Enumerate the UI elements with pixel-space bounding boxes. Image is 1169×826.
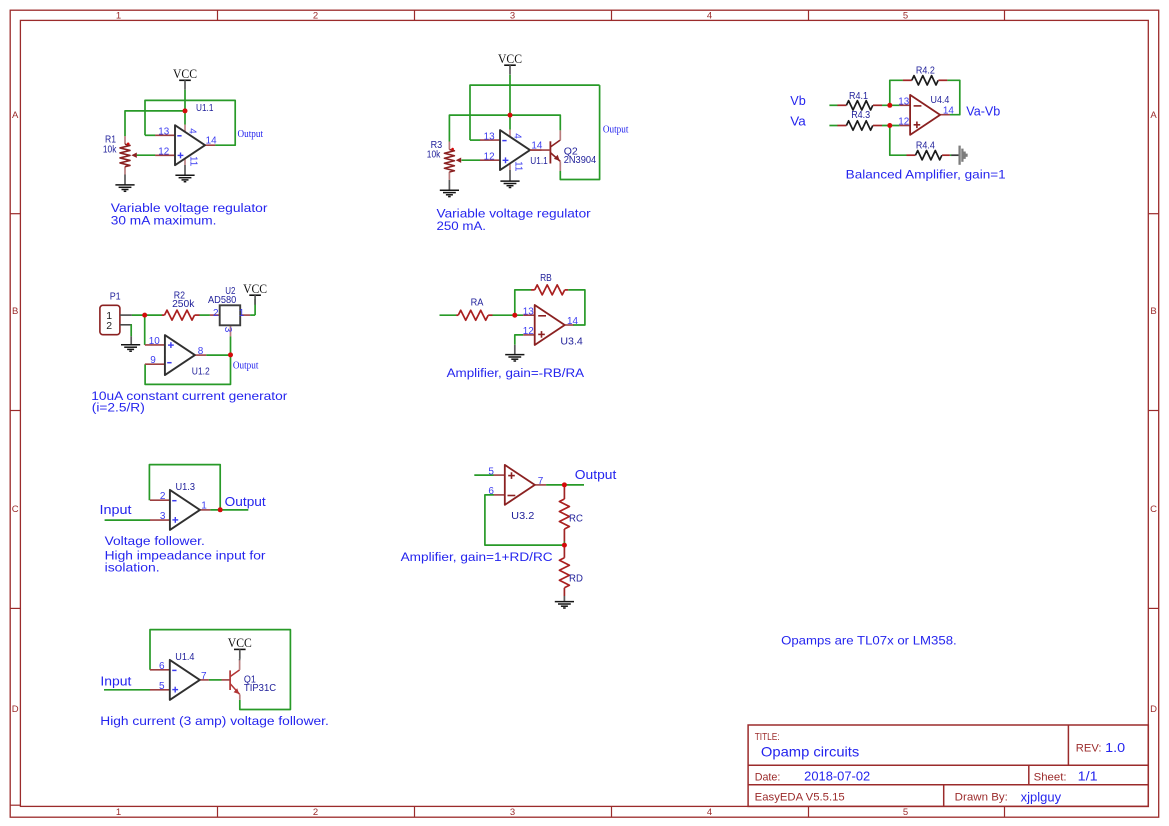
label U1.3 — [176, 481, 196, 493]
potentiometer R1 — [120, 136, 137, 174]
node Output — [228, 352, 233, 357]
note opamps — [781, 634, 957, 648]
wire — [250, 314, 255, 316]
net label Output — [225, 494, 266, 509]
svg-text:RA: RA — [471, 296, 484, 308]
svg-text:14: 14 — [206, 136, 217, 147]
resistor R4.2 — [903, 76, 948, 85]
pin 11 label — [188, 156, 199, 167]
svg-text:(i=2.5/R): (i=2.5/R) — [92, 400, 145, 414]
value AD580 — [208, 294, 236, 306]
svg-text:2: 2 — [313, 10, 318, 21]
pin 3 label — [222, 327, 233, 333]
wire — [474, 474, 493, 476]
caption amplifier gain=1+RD/RC — [401, 550, 553, 564]
svg-text:EasyEDA V5.5.15: EasyEDA V5.5.15 — [755, 792, 845, 804]
ground — [440, 190, 459, 196]
op-amp U1.1 — [155, 125, 215, 166]
svg-text:U3.2: U3.2 — [511, 510, 534, 522]
svg-text:5: 5 — [903, 10, 908, 21]
wire — [239, 659, 241, 660]
svg-text:30 mA maximum.: 30 mA maximum. — [111, 214, 217, 228]
svg-text:1: 1 — [239, 308, 245, 319]
label U1.1 — [196, 102, 214, 114]
wire — [150, 630, 290, 710]
pin 12 label — [523, 326, 534, 337]
resistor RA — [456, 310, 492, 320]
svg-text:2N3904: 2N3904 — [564, 154, 597, 166]
potentiometer R3 — [444, 142, 461, 180]
wire — [449, 115, 560, 141]
label RC — [569, 512, 583, 524]
net label Output — [575, 467, 617, 482]
power VCC — [243, 282, 267, 305]
wire — [440, 314, 457, 316]
wire — [470, 85, 600, 140]
wire — [568, 290, 585, 325]
value 10k R3 — [427, 149, 441, 161]
wire — [105, 519, 151, 521]
svg-text:R4.3: R4.3 — [851, 109, 870, 121]
svg-text:12: 12 — [898, 117, 909, 128]
pin 12 label — [484, 152, 495, 163]
title block — [748, 725, 1148, 806]
svg-text:1.0: 1.0 — [1105, 741, 1125, 755]
net label Output — [233, 359, 259, 371]
pin 14 label — [567, 316, 578, 327]
ground — [960, 146, 967, 165]
svg-text:D: D — [1150, 704, 1157, 715]
svg-text:Output: Output — [225, 494, 266, 509]
wire — [145, 355, 230, 385]
svg-text:TITLE:: TITLE: — [755, 732, 780, 743]
net label Output — [238, 128, 264, 140]
op-amp U1.1 (unit 2) — [480, 130, 542, 171]
svg-text:1: 1 — [201, 501, 207, 512]
wire — [145, 100, 235, 145]
wire — [882, 125, 899, 127]
wire — [882, 104, 899, 106]
wire — [461, 159, 480, 161]
label R3 — [431, 139, 443, 151]
svg-text:C: C — [1150, 504, 1157, 515]
svg-text:VCC: VCC — [498, 52, 522, 66]
wire — [515, 290, 531, 315]
wire — [947, 80, 959, 114]
ground — [115, 185, 134, 191]
svg-text:12: 12 — [158, 147, 169, 158]
pin 12 label — [898, 117, 909, 128]
svg-text:13: 13 — [523, 306, 534, 317]
op-amp U1.4 — [150, 660, 209, 700]
svg-text:Output: Output — [238, 128, 264, 140]
wire — [509, 75, 511, 130]
svg-text:4: 4 — [186, 128, 197, 134]
power VCC — [173, 67, 197, 90]
wire — [206, 354, 230, 356]
ground stem R3 — [448, 180, 450, 190]
label R4.4 — [916, 140, 935, 152]
pin 14 label — [943, 106, 954, 117]
svg-text:C: C — [12, 504, 19, 515]
svg-text:13: 13 — [158, 127, 169, 138]
pin 12 label — [158, 147, 169, 158]
svg-text:12: 12 — [484, 152, 495, 163]
ground stem P1 — [130, 336, 132, 344]
svg-text:12: 12 — [523, 326, 534, 337]
caption amplifier gain=-RB/RA — [447, 366, 585, 380]
wire — [890, 80, 903, 105]
value 2N3904 — [564, 154, 597, 166]
svg-text:RD: RD — [569, 572, 583, 584]
resistor RC — [559, 485, 569, 542]
svg-text:TIP31C: TIP31C — [244, 682, 277, 694]
power VCC — [228, 636, 252, 659]
svg-text:Amplifier, gain=-RB/RA: Amplifier, gain=-RB/RA — [447, 366, 585, 380]
svg-text:Output: Output — [233, 359, 259, 371]
ground — [175, 175, 194, 181]
wire — [546, 484, 584, 486]
svg-text:2: 2 — [213, 308, 219, 319]
svg-text:250k: 250k — [172, 298, 195, 310]
op-amp U1.2 — [145, 335, 206, 375]
svg-text:Drawn By:: Drawn By: — [955, 792, 1008, 804]
value 10k R1 — [103, 143, 117, 155]
pin 7 label — [538, 476, 544, 487]
pin 13 label — [484, 131, 495, 142]
value TIP31C — [244, 682, 277, 694]
svg-text:P1: P1 — [110, 290, 121, 302]
label Q2 — [564, 145, 578, 157]
ground stem RD — [563, 596, 565, 601]
wire — [130, 325, 133, 336]
node output — [218, 507, 223, 512]
svg-text:2: 2 — [106, 320, 112, 332]
value 250k — [172, 298, 195, 310]
wire — [145, 134, 155, 136]
svg-text:13: 13 — [898, 96, 909, 107]
wire — [137, 154, 156, 156]
resistor R4.3 — [837, 121, 882, 130]
pin 3 label — [160, 511, 166, 522]
svg-text:2: 2 — [313, 807, 318, 818]
pin 6 label — [159, 661, 165, 672]
svg-text:High current (3 amp) voltage f: High current (3 amp) voltage follower. — [100, 714, 328, 728]
label U3.4 — [560, 336, 583, 348]
svg-text:U1.3: U1.3 — [176, 481, 196, 493]
svg-text:Va-Vb: Va-Vb — [966, 104, 1000, 119]
svg-text:Input: Input — [100, 503, 133, 517]
svg-text:A: A — [12, 110, 19, 121]
op-amp U3.4 — [523, 305, 573, 345]
svg-text:1: 1 — [116, 807, 121, 818]
pin 2 label — [213, 308, 219, 319]
pin 6 label — [488, 486, 494, 497]
label RD — [569, 572, 583, 584]
pin 10 label — [149, 336, 160, 347]
svg-text:14: 14 — [567, 316, 578, 327]
label P1 — [110, 290, 121, 302]
svg-text:7: 7 — [201, 671, 207, 682]
wire — [210, 509, 248, 511]
wire — [125, 111, 185, 136]
pin 11 label — [513, 161, 524, 172]
svg-text:REV:: REV: — [1076, 742, 1102, 754]
pin 5 label — [159, 681, 165, 692]
label R1 — [105, 134, 116, 146]
wire — [149, 465, 220, 510]
svg-text:Vb: Vb — [790, 94, 806, 108]
svg-text:10k: 10k — [427, 149, 441, 161]
svg-text:isolation.: isolation. — [105, 560, 160, 574]
wire — [230, 336, 232, 355]
svg-text:Sheet:: Sheet: — [1034, 772, 1067, 784]
label U3.2 — [511, 510, 534, 522]
svg-text:R4.1: R4.1 — [849, 90, 868, 102]
svg-text:VCC: VCC — [228, 636, 252, 650]
svg-text:AD580: AD580 — [208, 294, 236, 306]
net label Va-Vb — [966, 104, 1000, 119]
svg-text:Input: Input — [100, 674, 132, 688]
svg-text:U4.4: U4.4 — [931, 94, 950, 106]
wire — [493, 314, 524, 316]
wire — [829, 104, 837, 106]
op-amp U3.2 — [494, 465, 547, 505]
pin 1 label — [239, 308, 245, 319]
wire — [104, 689, 150, 691]
ground stem R1 — [124, 175, 126, 185]
voltage reference U2 AD580 — [210, 305, 250, 336]
label RB — [540, 272, 552, 284]
pin 7 label — [201, 671, 207, 682]
label R4.1 — [849, 90, 868, 102]
pin 4 label — [511, 133, 522, 139]
net label Vb — [790, 94, 806, 108]
svg-text:B: B — [12, 306, 18, 317]
pin 5 label — [488, 466, 494, 477]
node P1/R2 — [142, 313, 147, 318]
ground — [500, 181, 519, 187]
svg-text:VCC: VCC — [243, 282, 267, 296]
wire — [132, 314, 162, 316]
svg-text:14: 14 — [943, 106, 954, 117]
svg-text:8: 8 — [198, 346, 204, 357]
caption high current voltage follower — [100, 714, 328, 728]
wire — [470, 139, 480, 141]
resistor RD — [559, 545, 569, 596]
svg-text:R4.4: R4.4 — [916, 140, 935, 152]
svg-text:U1.1: U1.1 — [196, 102, 214, 114]
svg-text:A: A — [1150, 110, 1157, 121]
svg-text:Va: Va — [790, 114, 806, 128]
ground stem op-amp — [509, 170, 511, 181]
wire — [829, 125, 837, 127]
pin 13 label — [523, 306, 534, 317]
svg-text:U3.4: U3.4 — [560, 336, 583, 348]
svg-text:5: 5 — [903, 807, 908, 818]
node RA/RB — [512, 313, 517, 318]
pin 13 label — [158, 127, 169, 138]
wire — [560, 85, 599, 179]
svg-text:5: 5 — [488, 466, 494, 477]
node VCC junction 2 — [508, 113, 513, 118]
svg-text:Output: Output — [603, 123, 629, 135]
caption 10uA constant current generator — [91, 389, 287, 415]
label U1.4 — [175, 651, 194, 663]
svg-text:RB: RB — [540, 272, 552, 284]
transistor Q1 — [221, 660, 239, 700]
svg-text:7: 7 — [538, 476, 544, 487]
ground lead — [951, 154, 959, 156]
ground — [505, 355, 524, 361]
svg-text:D: D — [12, 704, 19, 715]
node inverting input — [887, 103, 892, 108]
resistor R2 — [162, 310, 200, 320]
wire — [485, 495, 565, 545]
net label Input — [100, 674, 132, 688]
svg-text:R4.2: R4.2 — [916, 65, 935, 77]
net label Output — [603, 123, 629, 135]
svg-text:1/1: 1/1 — [1078, 770, 1098, 784]
svg-text:3: 3 — [510, 807, 515, 818]
pin 14 label — [206, 136, 217, 147]
net label Va — [790, 114, 806, 128]
svg-text:3: 3 — [510, 10, 515, 21]
label RA — [471, 296, 484, 308]
svg-text:2018-07-02: 2018-07-02 — [804, 770, 870, 784]
op-amp U4.4 — [899, 95, 949, 135]
pin 2 label — [160, 491, 166, 502]
node VCC junction — [183, 108, 188, 113]
ground stem op-amp U1.1 — [184, 165, 186, 175]
wire — [209, 679, 222, 681]
svg-text:Opamps are TL07x or LM358.: Opamps are TL07x or LM358. — [781, 634, 957, 648]
svg-text:Amplifier, gain=1+RD/RC: Amplifier, gain=1+RD/RC — [401, 550, 553, 564]
svg-text:11: 11 — [188, 156, 199, 167]
svg-text:10: 10 — [149, 336, 160, 347]
svg-text:13: 13 — [484, 131, 495, 142]
wire — [200, 314, 210, 316]
wire — [950, 154, 952, 156]
node output RC — [562, 482, 567, 487]
svg-text:3: 3 — [160, 511, 166, 522]
resistor R4.1 — [837, 101, 882, 110]
svg-text:4: 4 — [707, 807, 712, 818]
resistor RB — [531, 285, 568, 295]
svg-text:11: 11 — [513, 161, 524, 172]
pin 9 label — [150, 355, 156, 366]
pin 4 label — [186, 128, 197, 134]
svg-text:Voltage follower.: Voltage follower. — [105, 534, 205, 548]
wire — [144, 315, 146, 345]
connector P1 — [100, 305, 132, 334]
svg-text:B: B — [1150, 306, 1156, 317]
label U1.2 — [192, 366, 210, 378]
svg-text:RC: RC — [569, 512, 583, 524]
op-amp U1.3 — [150, 490, 211, 530]
label R4.3 — [851, 109, 870, 121]
svg-text:4: 4 — [511, 133, 522, 139]
power VCC — [498, 52, 522, 75]
svg-text:1: 1 — [116, 10, 121, 21]
caption variable voltage regulator 250mA — [437, 206, 591, 232]
svg-text:Output: Output — [575, 467, 617, 482]
resistor R4.4 — [907, 151, 950, 160]
caption balanced amplifier — [846, 168, 1006, 182]
caption variable voltage regulator 30mA — [111, 201, 268, 228]
label R4.2 — [916, 65, 935, 77]
svg-text:5: 5 — [159, 681, 165, 692]
svg-text:xjplguy: xjplguy — [1021, 791, 1062, 805]
node RC/RD — [562, 543, 567, 548]
pin 14 label — [531, 141, 542, 152]
ground stem U3.4 — [514, 345, 516, 355]
net label Input — [100, 503, 133, 517]
pin 1 label — [201, 501, 207, 512]
ground — [555, 602, 574, 608]
svg-text:Balanced Amplifier, gain=1: Balanced Amplifier, gain=1 — [846, 168, 1006, 182]
svg-text:10k: 10k — [103, 143, 117, 155]
label Q1 — [244, 673, 256, 685]
wire — [254, 299, 256, 315]
node non-inverting input — [887, 123, 892, 128]
svg-text:U1.2: U1.2 — [192, 366, 210, 378]
svg-text:U1.1: U1.1 — [530, 155, 548, 167]
label U2 — [225, 285, 235, 297]
svg-text:9: 9 — [150, 355, 156, 366]
label R2 — [174, 290, 185, 302]
wire — [563, 542, 565, 546]
ground — [121, 345, 140, 351]
svg-text:Opamp circuits: Opamp circuits — [761, 744, 859, 760]
svg-text:3: 3 — [222, 327, 233, 333]
svg-text:6: 6 — [159, 661, 165, 672]
caption voltage follower — [105, 534, 266, 574]
wire — [890, 126, 907, 156]
label U1.1 (unit 2) — [530, 155, 548, 167]
svg-text:4: 4 — [707, 10, 712, 21]
transistor Q2 — [530, 130, 560, 171]
svg-text:250 mA.: 250 mA. — [437, 219, 487, 233]
pin 13 label — [898, 96, 909, 107]
wire — [184, 90, 186, 125]
pin 8 label — [198, 346, 204, 357]
svg-text:VCC: VCC — [173, 67, 197, 81]
svg-text:U1.4: U1.4 — [175, 651, 194, 663]
svg-text:Date:: Date: — [755, 772, 781, 784]
label U4.4 — [931, 94, 950, 106]
svg-text:2: 2 — [160, 491, 166, 502]
wire — [515, 335, 523, 345]
